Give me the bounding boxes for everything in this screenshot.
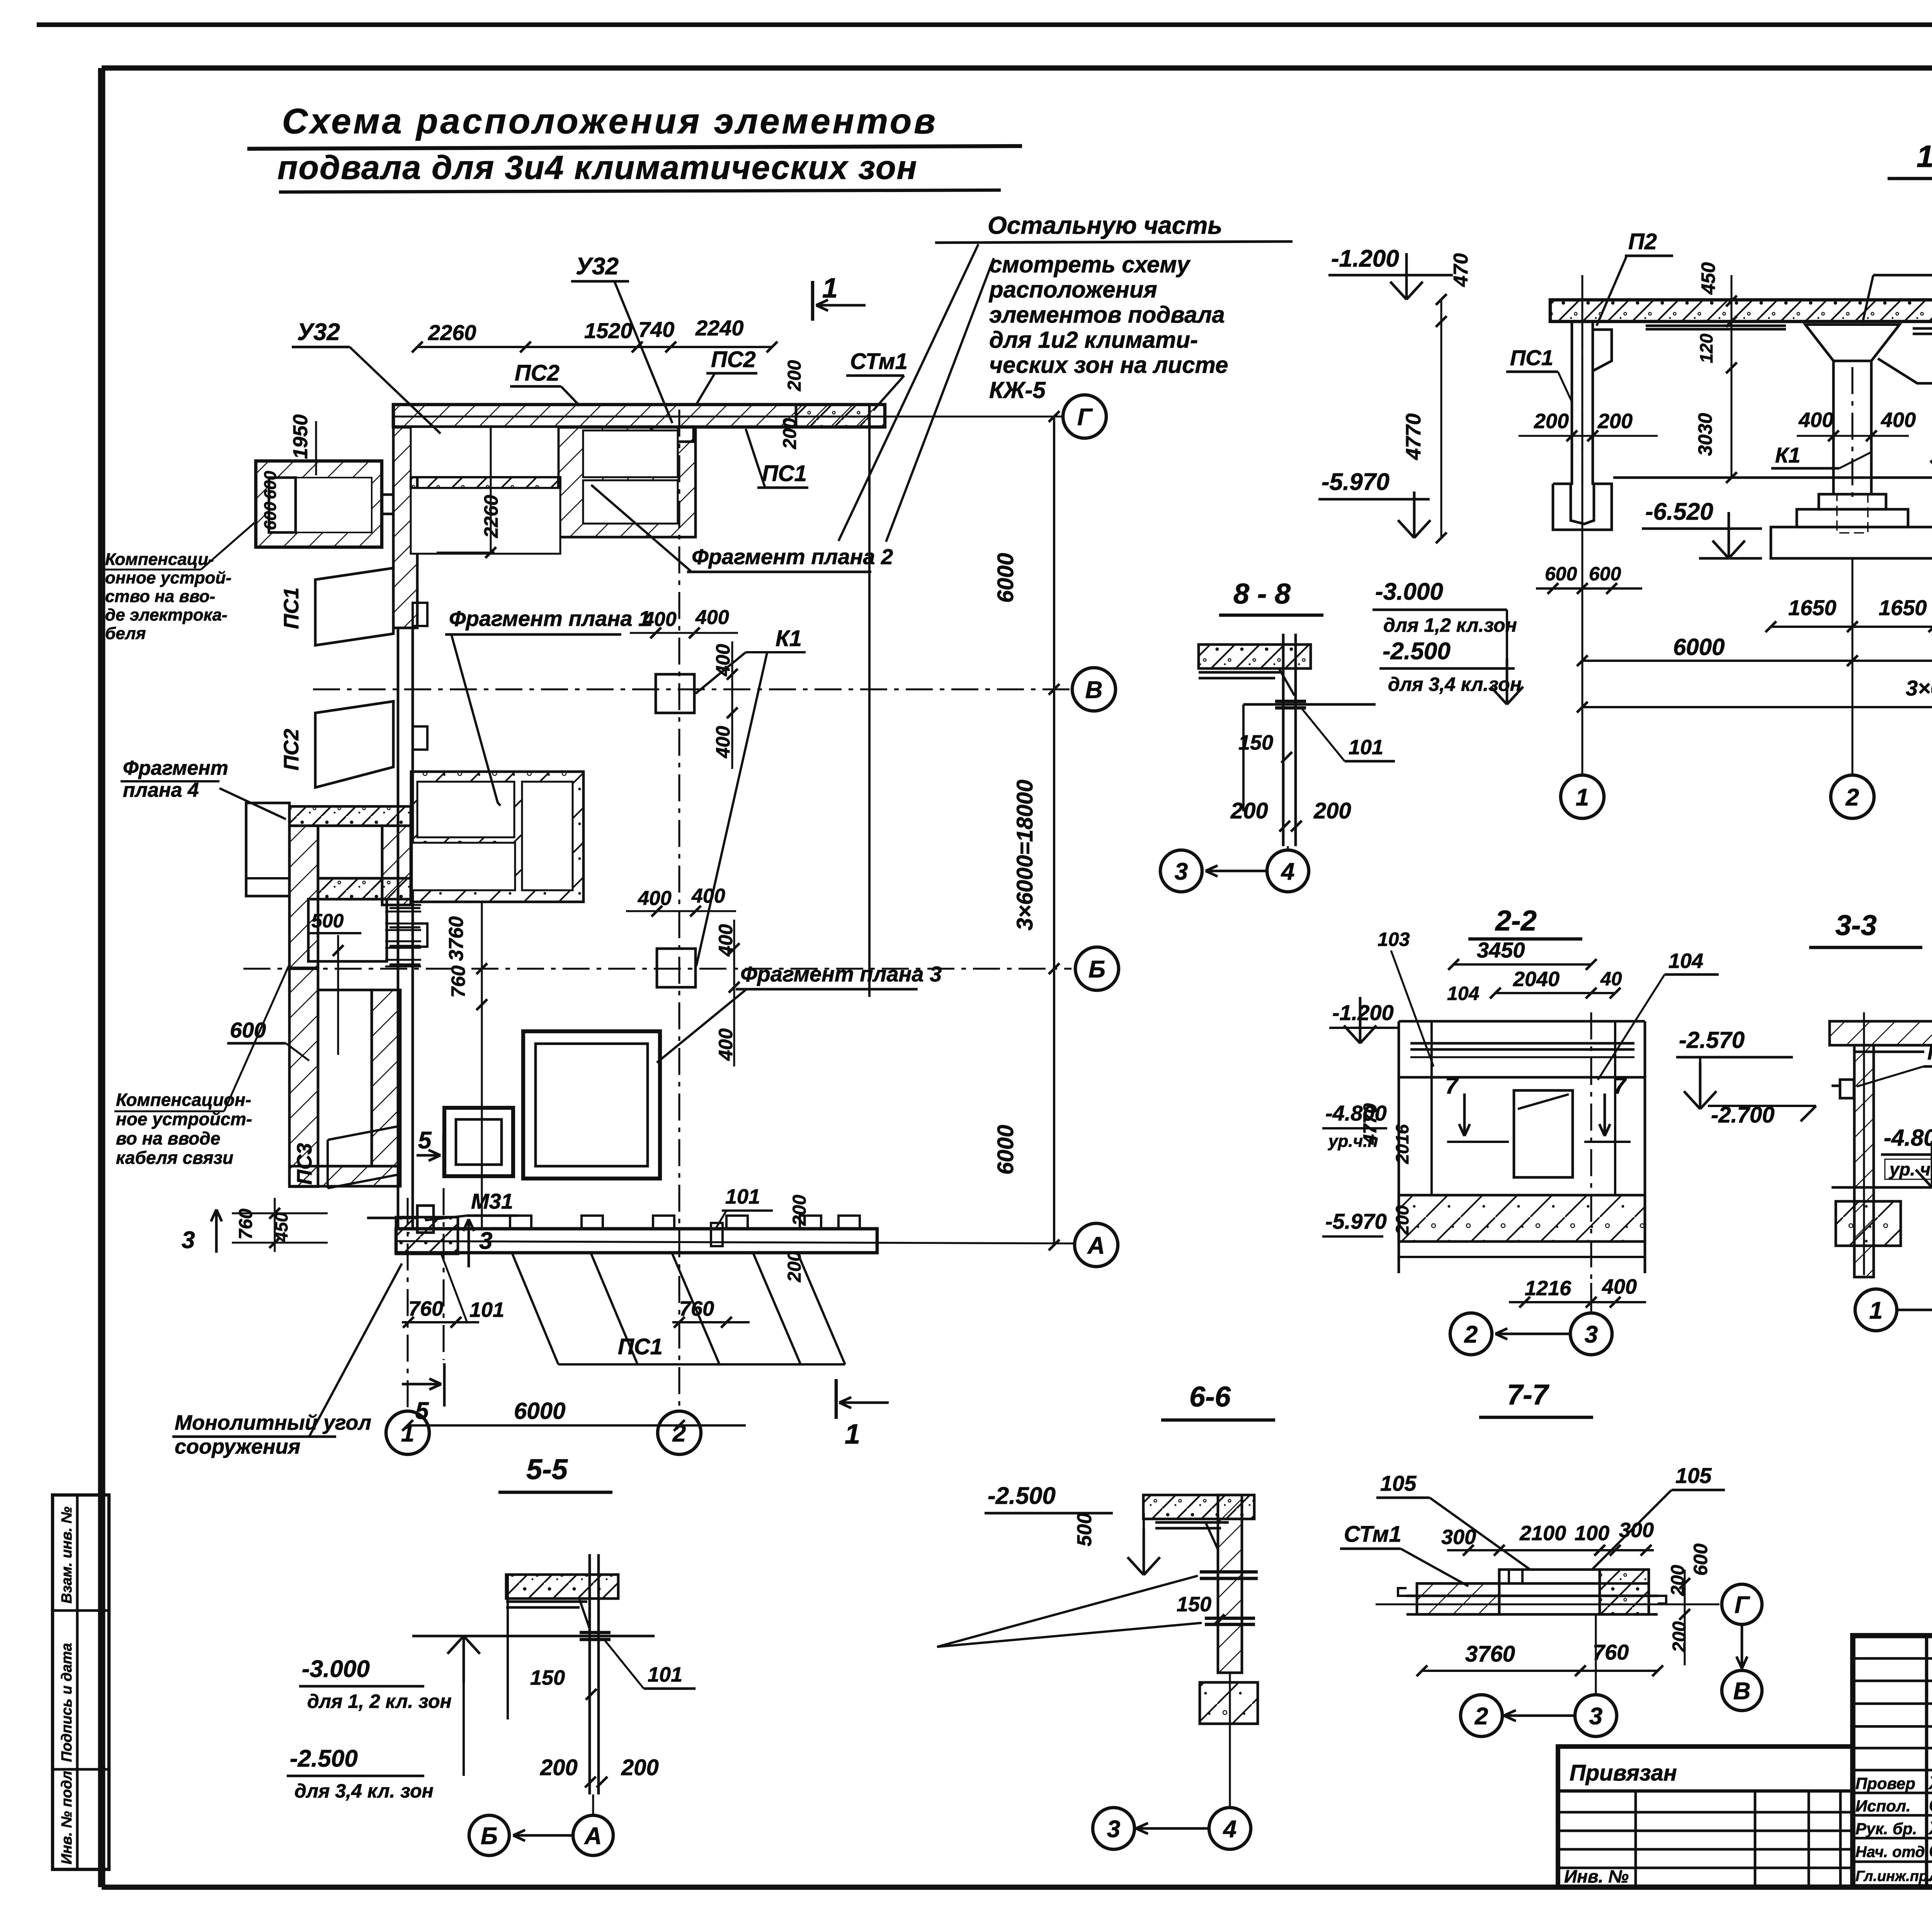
- svg-text:3-3: 3-3: [1835, 909, 1877, 941]
- svg-text:400: 400: [638, 887, 672, 910]
- cut line 5-5 dash: [442, 1188, 444, 1360]
- svg-text:ческих зон на листе: ческих зон на листе: [989, 352, 1228, 378]
- plan axis Б line: [243, 968, 1071, 969]
- 1-1 ground line: [1613, 476, 1932, 479]
- svg-text:101: 101: [469, 1298, 504, 1321]
- svg-text:Инв. №: Инв. №: [1564, 1866, 1629, 1886]
- svg-text:200: 200: [780, 418, 800, 449]
- svg-text:-2.500: -2.500: [1383, 638, 1451, 665]
- sheet inner frame bottom: [102, 1884, 1932, 1890]
- plan top wall concrete right part: [796, 405, 869, 427]
- 7-7 left hatched part: [1417, 1583, 1499, 1614]
- svg-text:Г: Г: [1077, 404, 1093, 430]
- svg-text:кабеля связи: кабеля связи: [116, 1148, 233, 1168]
- svg-text:300: 300: [1619, 1519, 1654, 1542]
- 1-1 dim line 4770 vertical: [1440, 299, 1442, 538]
- 7-7 end hooks: [1398, 1588, 1406, 1596]
- svg-text:2240: 2240: [695, 316, 744, 340]
- 1-1 slab bottom ledge lines: [1646, 325, 1786, 327]
- svg-text:-5.970: -5.970: [1321, 469, 1389, 495]
- svg-text:1: 1: [845, 1419, 860, 1450]
- 6-6 wall hatched: [1218, 1495, 1242, 1673]
- svg-text:М31: М31: [471, 1189, 513, 1213]
- 1-1 left wall footing channel: [1553, 484, 1612, 530]
- svg-text:3: 3: [1589, 1703, 1602, 1730]
- svg-text:8 - 8: 8 - 8: [1233, 578, 1291, 610]
- svg-text:104: 104: [1447, 983, 1479, 1004]
- svg-text:-2.500: -2.500: [988, 1483, 1056, 1509]
- section mark 3 (left, up arrow): [215, 1209, 218, 1253]
- 2-2 bottom slab hatched: [1399, 1195, 1645, 1242]
- svg-text:400: 400: [712, 726, 734, 759]
- svg-text:500: 500: [311, 910, 344, 932]
- svg-text:расположения: расположения: [988, 277, 1157, 303]
- svg-text:200: 200: [1669, 1621, 1690, 1653]
- column K1 #1 (plan): [656, 674, 694, 713]
- 3-3 circles 1-2: [1855, 1289, 1897, 1331]
- svg-text:-4.800: -4.800: [1884, 1125, 1932, 1151]
- axis circle Б: [1075, 947, 1119, 990]
- svg-text:ПС2: ПС2: [711, 347, 756, 372]
- svg-text:элементов подвала: элементов подвала: [989, 302, 1225, 328]
- compensator device 2 right band lower: [372, 990, 400, 1166]
- svg-text:-3.000: -3.000: [302, 1656, 370, 1682]
- 1-1 axis circle 1: [1561, 775, 1604, 818]
- svg-text:Фрагмент: Фрагмент: [123, 757, 228, 779]
- svg-text:Фрагмент плана 2: Фрагмент плана 2: [692, 544, 893, 569]
- svg-text:4: 4: [1223, 1816, 1236, 1842]
- svg-text:200: 200: [784, 1251, 805, 1282]
- svg-text:для 1,2 кл.зон: для 1,2 кл.зон: [1383, 614, 1517, 636]
- svg-text:-2.500: -2.500: [290, 1745, 358, 1772]
- 8-8 floor line: [1243, 703, 1376, 706]
- ПС2 flag (left wall): [315, 701, 393, 787]
- svg-text:-1.200: -1.200: [1331, 245, 1399, 272]
- 2-2 inner verticals: [1430, 1021, 1433, 1195]
- svg-text:150: 150: [1238, 731, 1273, 754]
- svg-text:600: 600: [261, 502, 280, 530]
- svg-text:сооружения: сооружения: [175, 1435, 300, 1458]
- svg-text:200: 200: [789, 1195, 810, 1226]
- svg-text:5: 5: [415, 1398, 429, 1424]
- svg-text:ПС1: ПС1: [618, 1334, 663, 1359]
- svg-text:103: 103: [1378, 929, 1410, 950]
- main title underline 2: [279, 190, 1001, 192]
- compensator device 2 room upper: [318, 826, 382, 878]
- svg-text:У32: У32: [297, 319, 340, 345]
- plan bottom wall band: [396, 1229, 877, 1253]
- svg-text:ПС3: ПС3: [293, 1143, 316, 1185]
- svg-text:Монолитный угол: Монолитный угол: [175, 1411, 371, 1434]
- svg-text:1: 1: [1869, 1297, 1883, 1324]
- svg-text:7: 7: [1445, 1073, 1459, 1099]
- ПС3 flag (left wall): [328, 1126, 398, 1140]
- svg-text:400: 400: [1602, 1275, 1637, 1298]
- svg-text:1520: 1520: [584, 318, 633, 343]
- plan axis Г line: [393, 415, 1063, 417]
- svg-text:4: 4: [1281, 858, 1294, 885]
- svg-text:4770: 4770: [1360, 1103, 1381, 1145]
- svg-text:5: 5: [418, 1127, 432, 1154]
- svg-text:-6.520: -6.520: [1645, 498, 1713, 525]
- room D small left: [444, 1108, 513, 1176]
- plan axis 2 line: [678, 410, 680, 1410]
- 3-3 ground line: [1832, 1186, 1932, 1189]
- 1-1 column axis2 shaft: [1832, 361, 1835, 494]
- 5-5 floor line: [412, 1635, 655, 1638]
- plan bottom dim 6000 (1-2): [408, 1424, 746, 1427]
- svg-text:А: А: [1087, 1232, 1105, 1259]
- svg-text:Компенсаци-: Компенсаци-: [105, 550, 214, 569]
- room block C (central rooms): [411, 772, 583, 902]
- svg-text:104: 104: [1668, 949, 1703, 973]
- svg-text:Подпись и дата: Подпись и дата: [59, 1643, 75, 1762]
- svg-text:1650: 1650: [1879, 595, 1927, 620]
- svg-text:400: 400: [691, 885, 725, 907]
- sheet inner frame left (thick): [98, 68, 105, 1887]
- plan top wall right edge: [392, 405, 395, 427]
- svg-text:2040: 2040: [1513, 968, 1560, 991]
- compensator device 2 left band upper: [289, 826, 318, 968]
- 5-5 wall lines: [588, 1554, 591, 1794]
- svg-text:К1: К1: [1775, 443, 1801, 467]
- 3-3 М31 detail: [1840, 1080, 1854, 1098]
- title block left mini table rows: [1853, 1657, 1932, 1660]
- svg-text:450: 450: [1697, 262, 1719, 295]
- 5-5 circles Б-А: [469, 1815, 509, 1855]
- svg-text:Рук. бр.: Рук. бр.: [1855, 1820, 1917, 1838]
- svg-text:3: 3: [182, 1227, 195, 1253]
- 2-2 circles 2-3: [1450, 1313, 1492, 1355]
- svg-text:101: 101: [725, 1185, 760, 1208]
- svg-text:У32: У32: [576, 253, 619, 280]
- svg-text:-3.000: -3.000: [1375, 578, 1443, 605]
- Фрагмент4 box on wall: [246, 803, 289, 896]
- svg-text:3×6000=18000: 3×6000=18000: [1906, 676, 1932, 700]
- svg-text:В: В: [1733, 1678, 1751, 1704]
- svg-text:Нач. отд.: Нач. отд.: [1855, 1844, 1929, 1861]
- 3-3 wall hatched: [1854, 1045, 1874, 1277]
- svg-text:3: 3: [1107, 1816, 1120, 1842]
- compensator device 2 room 500: [308, 899, 387, 961]
- 2-2 bottom lines: [1399, 1256, 1645, 1258]
- svg-text:ПС2: ПС2: [515, 361, 560, 386]
- svg-text:200: 200: [621, 1755, 659, 1780]
- svg-text:400: 400: [695, 606, 729, 629]
- svg-text:600: 600: [1545, 563, 1577, 585]
- plan left wall small notches: [413, 603, 427, 626]
- 2-2 outer box: [1399, 1020, 1645, 1023]
- svg-text:101: 101: [648, 1663, 682, 1686]
- svg-text:760: 760: [1593, 1640, 1629, 1664]
- svg-text:Фрагмент плана 1: Фрагмент плана 1: [449, 606, 650, 631]
- svg-text:1216: 1216: [1525, 1277, 1571, 1300]
- svg-text:1650: 1650: [1788, 595, 1837, 620]
- svg-text:1: 1: [822, 273, 838, 304]
- 6-6 slab hatched: [1143, 1495, 1254, 1519]
- 5-5 slab hatched: [506, 1575, 618, 1599]
- svg-text:760: 760: [447, 965, 469, 998]
- axis circle 1 (plan): [386, 1411, 429, 1454]
- svg-text:-2.570: -2.570: [1679, 1027, 1745, 1053]
- svg-text:Б: Б: [481, 1823, 498, 1849]
- svg-text:во на вводе: во на вводе: [116, 1128, 220, 1148]
- svg-text:3450: 3450: [1477, 938, 1525, 962]
- plan axis 1 line: [406, 1198, 408, 1410]
- bolt на bottom wall: [711, 1223, 723, 1246]
- svg-text:400: 400: [1798, 408, 1833, 432]
- svg-text:200: 200: [1230, 798, 1268, 823]
- room block A (fragment 2 rooms) walls: [558, 427, 696, 537]
- 7-7 axis Г line horizontal: [1376, 1603, 1719, 1605]
- plan right cut line vertical: [868, 410, 871, 997]
- plan bottom-left corner concrete: [396, 1217, 458, 1254]
- svg-text:М31: М31: [1927, 1039, 1932, 1065]
- sheet outer border top: [37, 22, 1932, 27]
- axis circle 2 (plan): [658, 1411, 701, 1454]
- plan left wall lower narrow part: [397, 628, 400, 1229]
- svg-text:1950: 1950: [289, 414, 312, 459]
- section mark 1 (top): [811, 281, 815, 321]
- plan top dim line: [417, 346, 772, 348]
- 2-2 dashed axis: [1590, 1012, 1592, 1283]
- compensator device 2 bottom band: [289, 1166, 400, 1186]
- room block B (upper middle rooms): [411, 427, 558, 477]
- svg-text:В: В: [1085, 677, 1103, 703]
- compensator device 2 top band: [289, 806, 411, 826]
- 7-7 plate body: [1417, 1582, 1649, 1585]
- svg-text:2-2: 2-2: [1495, 905, 1537, 937]
- 1-1 column axis2 capital: [1805, 325, 1900, 361]
- 7-7 raised center: [1499, 1570, 1600, 1583]
- section mark 1 (bottom): [835, 1379, 838, 1419]
- compensator device 2 left band lower: [289, 969, 318, 1187]
- svg-text:К1: К1: [776, 626, 802, 651]
- axis circle В: [1072, 668, 1116, 711]
- 1-1 axis circle 2: [1831, 775, 1874, 818]
- svg-text:5-5: 5-5: [526, 1453, 568, 1485]
- svg-text:40: 40: [1600, 968, 1622, 990]
- svg-text:ПС1: ПС1: [762, 461, 807, 486]
- svg-text:600: 600: [261, 471, 280, 499]
- svg-text:2260: 2260: [428, 320, 476, 345]
- 3-3 top slab hatched: [1830, 1021, 1932, 1045]
- 7-7 circles 2-3: [1461, 1695, 1502, 1736]
- left wall bolts row: [389, 907, 420, 909]
- column K1 #2 (plan): [657, 949, 696, 987]
- 8-8 bolt mark: [1275, 700, 1306, 703]
- svg-text:ПС1: ПС1: [1510, 345, 1553, 370]
- svg-text:120: 120: [1696, 333, 1716, 363]
- plan axis А line: [396, 1241, 1073, 1243]
- 6-6 footing hatched: [1200, 1682, 1258, 1724]
- svg-text:Инв. № подл.: Инв. № подл.: [59, 1767, 75, 1864]
- 6-6 axis line: [1229, 1673, 1231, 1808]
- svg-text:Испол.: Испол.: [1855, 1797, 1911, 1815]
- 7-7 right hatched part: [1600, 1570, 1649, 1614]
- svg-text:смотреть схему: смотреть схему: [989, 252, 1191, 277]
- svg-text:2: 2: [1464, 1321, 1478, 1348]
- svg-text:Взам. инв. №: Взам. инв. №: [59, 1507, 75, 1604]
- 8-8 left break line: [1242, 704, 1245, 811]
- svg-text:200: 200: [784, 360, 805, 391]
- svg-text:Компенсацион-: Компенсацион-: [116, 1090, 251, 1110]
- diag leader from note to plan (1): [838, 244, 978, 541]
- 1-1 column axis2 footing: [1819, 494, 1886, 509]
- М31 bolt detail (plan): [417, 1206, 434, 1233]
- svg-text:3760: 3760: [1465, 1641, 1515, 1667]
- svg-text:Фрагмент плана 3: Фрагмент плана 3: [740, 962, 942, 986]
- 2-2 door opening: [1514, 1090, 1573, 1177]
- main title underline 1: [247, 146, 1022, 149]
- compensator device 1 outer box (electro): [256, 461, 382, 547]
- 8-8 circles 3-4: [1160, 850, 1202, 892]
- plan top wall band (hatched): [393, 405, 885, 427]
- svg-text:де электрока-: де электрока-: [105, 605, 228, 624]
- plan axis В line: [313, 688, 1072, 690]
- svg-text:4770: 4770: [1402, 413, 1425, 460]
- svg-text:Остальную часть: Остальную часть: [988, 211, 1222, 239]
- section mark 5 (upper): [417, 1154, 440, 1157]
- svg-text:3030: 3030: [1694, 413, 1716, 456]
- 8-8 wall lines: [1282, 634, 1285, 846]
- svg-text:6-6: 6-6: [1189, 1381, 1231, 1413]
- section mark 5 (lower): [402, 1383, 441, 1386]
- 1-1 dim line 450/120/3030: [1730, 275, 1732, 478]
- svg-text:Альшиц: Альшиц: [1929, 1865, 1932, 1885]
- svg-text:200: 200: [540, 1755, 578, 1780]
- svg-text:СТм1: СТм1: [850, 349, 908, 374]
- svg-text:101: 101: [1349, 736, 1383, 759]
- 6-6 leaders 101: [937, 1576, 1198, 1647]
- svg-text:-5.970: -5.970: [1325, 1209, 1387, 1233]
- compensator device 2 right band upper: [382, 826, 411, 905]
- ПС1 panels trapezoid marks below bottom wall: [512, 1254, 558, 1364]
- diag leader from note to plan (2): [886, 258, 994, 542]
- compensator device 1 inner chamber: [269, 478, 296, 532]
- title block left mini table columns: [1925, 1636, 1929, 1887]
- 1-1 axis verticals to circles: [1581, 275, 1583, 775]
- plan vertical dim line at right: [1053, 417, 1055, 1245]
- 5-5 level arrow: [463, 1636, 465, 1776]
- svg-text:6000: 6000: [993, 1125, 1018, 1175]
- svg-text:ПС1: ПС1: [280, 587, 303, 629]
- 2-2 top slab lines: [1410, 1042, 1634, 1045]
- 7-7 circles Г-В right: [1722, 1584, 1762, 1624]
- 3-3 axis line: [1863, 1012, 1865, 1275]
- svg-text:3760: 3760: [445, 916, 468, 961]
- 6-6 wall bolts: [1200, 1570, 1258, 1574]
- plan top wall lower ledge lines: [415, 426, 524, 429]
- svg-text:150: 150: [530, 1666, 565, 1689]
- svg-text:150: 150: [1177, 1593, 1211, 1616]
- svg-text:6000: 6000: [1673, 634, 1725, 660]
- svg-text:3: 3: [1175, 858, 1188, 885]
- svg-text:2016: 2016: [1392, 1124, 1412, 1164]
- svg-text:-1.200: -1.200: [1332, 1000, 1394, 1025]
- 2-2 section 7 marks: [1463, 1094, 1466, 1136]
- 5-5 bolt mark: [580, 1631, 611, 1634]
- svg-text:200: 200: [1313, 798, 1351, 823]
- room block D (square rooms, fragment 3): [523, 1031, 660, 1179]
- 1-1 left wall ПС1 (axis1): [1571, 321, 1573, 485]
- axis circle Г: [1063, 395, 1106, 438]
- svg-text:Провер: Провер: [1855, 1774, 1915, 1793]
- title block outer rect: [1853, 1636, 1932, 1887]
- Привязан block outer: [1558, 1747, 1853, 1887]
- plan bottom wall teeth: [510, 1216, 531, 1229]
- svg-text:П2: П2: [1628, 229, 1657, 254]
- svg-text:600: 600: [1589, 563, 1621, 585]
- svg-text:3: 3: [1585, 1321, 1598, 1348]
- 3-3 footing hatched: [1836, 1201, 1901, 1246]
- svg-text:3×6000=18000: 3×6000=18000: [1012, 780, 1037, 930]
- axis circle А: [1075, 1223, 1118, 1267]
- svg-text:7: 7: [1613, 1073, 1627, 1099]
- svg-text:Сабускан: Сабускан: [1929, 1841, 1932, 1861]
- note underline: [935, 241, 1293, 243]
- svg-text:600: 600: [1690, 1543, 1711, 1576]
- svg-text:ур. ч. п.: ур. ч. п.: [1889, 1159, 1932, 1179]
- svg-text:Б: Б: [1088, 956, 1105, 983]
- svg-text:подвала для 3и4 климатически: подвала для 3и4 климатических зон: [277, 149, 918, 186]
- svg-text:2: 2: [1475, 1703, 1488, 1730]
- 8-8 slab hatched: [1199, 645, 1311, 668]
- svg-text:1: 1: [1576, 784, 1589, 811]
- 6-6 circles 3-4: [1093, 1808, 1134, 1849]
- svg-text:беля: беля: [105, 624, 146, 643]
- svg-text:7-7: 7-7: [1507, 1379, 1550, 1411]
- svg-text:Схема расположения элементов: Схема расположения элементов: [282, 102, 938, 141]
- svg-text:470: 470: [1450, 253, 1472, 287]
- svg-text:200: 200: [1534, 410, 1569, 433]
- svg-text:740: 740: [638, 317, 674, 342]
- comp2 bolts: [385, 904, 421, 906]
- svg-text:300: 300: [1441, 1526, 1476, 1549]
- svg-text:2: 2: [1845, 784, 1859, 811]
- svg-text:онное устрой-: онное устрой-: [105, 568, 231, 587]
- svg-text:для 3,4 кл. зон: для 3,4 кл. зон: [294, 1780, 434, 1802]
- ПС1 flag (left wall): [315, 568, 393, 645]
- svg-text:6000: 6000: [514, 1398, 565, 1424]
- svg-text:105: 105: [1675, 1463, 1712, 1488]
- svg-text:для 3,4 кл.зон: для 3,4 кл.зон: [1388, 673, 1522, 695]
- svg-text:Гл.инж.пр.: Гл.инж.пр.: [1855, 1868, 1932, 1884]
- compensator 1 connection to wall: [382, 493, 393, 496]
- svg-text:105: 105: [1380, 1471, 1417, 1495]
- svg-text:200: 200: [1597, 410, 1633, 433]
- svg-text:400: 400: [712, 644, 734, 677]
- 1-1 KT1 beam outline: [1878, 352, 1932, 383]
- plan left wall band (hatched): [393, 427, 417, 628]
- 1-1 dim line 6000+6000: [1582, 660, 1932, 662]
- svg-text:для 1, 2 кл. зон: для 1, 2 кл. зон: [307, 1690, 452, 1712]
- compensator device 2 room lower: [318, 990, 372, 1166]
- svg-text:Г: Г: [1735, 1592, 1750, 1618]
- svg-text:КЖ-5: КЖ-5: [989, 377, 1046, 403]
- svg-text:ПС2: ПС2: [280, 729, 303, 770]
- 5-5 left break line: [507, 1575, 509, 1719]
- svg-text:500: 500: [1073, 1513, 1096, 1546]
- svg-text:2100: 2100: [1519, 1522, 1566, 1545]
- svg-text:Славинская: Славинская: [1929, 1795, 1932, 1815]
- svg-text:400: 400: [1881, 408, 1916, 432]
- svg-text:СТм1: СТм1: [1344, 1522, 1401, 1547]
- svg-text:А: А: [584, 1823, 602, 1849]
- 1-1 dim line 3x6000=18000: [1582, 706, 1932, 708]
- svg-text:для 1и2 климати-: для 1и2 климати-: [989, 327, 1198, 353]
- left margin strip table: [53, 1495, 109, 1869]
